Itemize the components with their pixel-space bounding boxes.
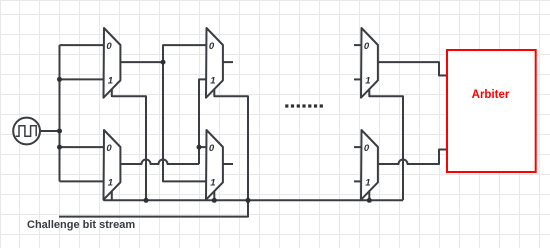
- wire U2 select down: [214, 89, 248, 200]
- svg-text:Arbiter: Arbiter: [472, 89, 510, 101]
- ellipsis dots: [285, 104, 323, 107]
- svg-text:1: 1: [108, 177, 113, 188]
- junction select U6: [367, 198, 372, 203]
- wire U5 select stub: [213, 191, 215, 200]
- mux U4: [104, 130, 121, 200]
- wire bus to U1 pin 1: [60, 78, 105, 80]
- wire source to input bus: [40, 130, 59, 132]
- svg-text:0: 0: [106, 41, 112, 52]
- svg-text:0: 0: [106, 143, 112, 154]
- wire U1 output to node A: [120, 61, 163, 63]
- svg-text:1: 1: [210, 177, 215, 188]
- wire U3 pin 0 stub: [354, 44, 362, 46]
- wire U3 select down: [369, 89, 403, 200]
- svg-text:0: 0: [209, 41, 215, 52]
- svg-text:1: 1: [365, 75, 370, 86]
- wire bus to U1 pin 0: [60, 44, 105, 46]
- junction node bus-U4pin0: [57, 145, 62, 150]
- mux U6: [361, 130, 378, 200]
- mux U3: [361, 28, 378, 98]
- wire U6 select stub: [368, 191, 370, 200]
- junction select U1: [144, 198, 149, 203]
- wire node B to U5 pin 0: [199, 146, 207, 148]
- junction node B: [197, 145, 202, 150]
- wire U6 pin 1 stub: [354, 180, 362, 182]
- wire U6 pin 0 stub: [354, 146, 362, 148]
- svg-text:1: 1: [365, 177, 370, 188]
- mux U5: [206, 130, 223, 200]
- wire bus to U4 pin 1: [60, 180, 105, 182]
- svg-text:0: 0: [364, 41, 370, 52]
- svg-text:1: 1: [210, 75, 215, 86]
- mux U1: [104, 28, 121, 98]
- wire node A up to U2 pin 0: [163, 45, 207, 62]
- wire U2 output stub: [223, 61, 233, 63]
- wire input bus vertical: [59, 45, 61, 181]
- wire U1 select down: [112, 89, 146, 200]
- wire challenge bit stream line: [59, 200, 248, 216]
- wire U3 output to arbiter: [378, 62, 447, 75]
- wire U4 output with two hops: [120, 160, 199, 164]
- mux U2: [206, 28, 223, 98]
- arbiter U7: [447, 50, 536, 172]
- svg-text:Challenge bit stream: Challenge bit stream: [27, 219, 135, 231]
- wire select bus: [104, 199, 404, 201]
- pulse source V1: [13, 118, 40, 145]
- wire bus to U4 pin 0: [60, 146, 105, 148]
- wire U4 select stub: [111, 191, 113, 200]
- wire U5 output stub: [223, 163, 233, 165]
- wire U4 output riser to U2 pin 1: [199, 79, 207, 164]
- junction select U5: [212, 198, 217, 203]
- junction node bus-U1pin1: [57, 77, 62, 82]
- svg-text:1: 1: [108, 75, 113, 86]
- wire U6 output with hop to arbiter: [378, 150, 447, 165]
- wire node A down to U5 pin 1: [163, 62, 207, 181]
- junction node bus-source: [57, 129, 62, 134]
- junction select challenge: [246, 198, 251, 203]
- junction node A: [161, 60, 166, 65]
- svg-text:0: 0: [209, 143, 215, 154]
- svg-text:0: 0: [364, 143, 370, 154]
- wire U3 pin 1 stub: [354, 78, 362, 80]
